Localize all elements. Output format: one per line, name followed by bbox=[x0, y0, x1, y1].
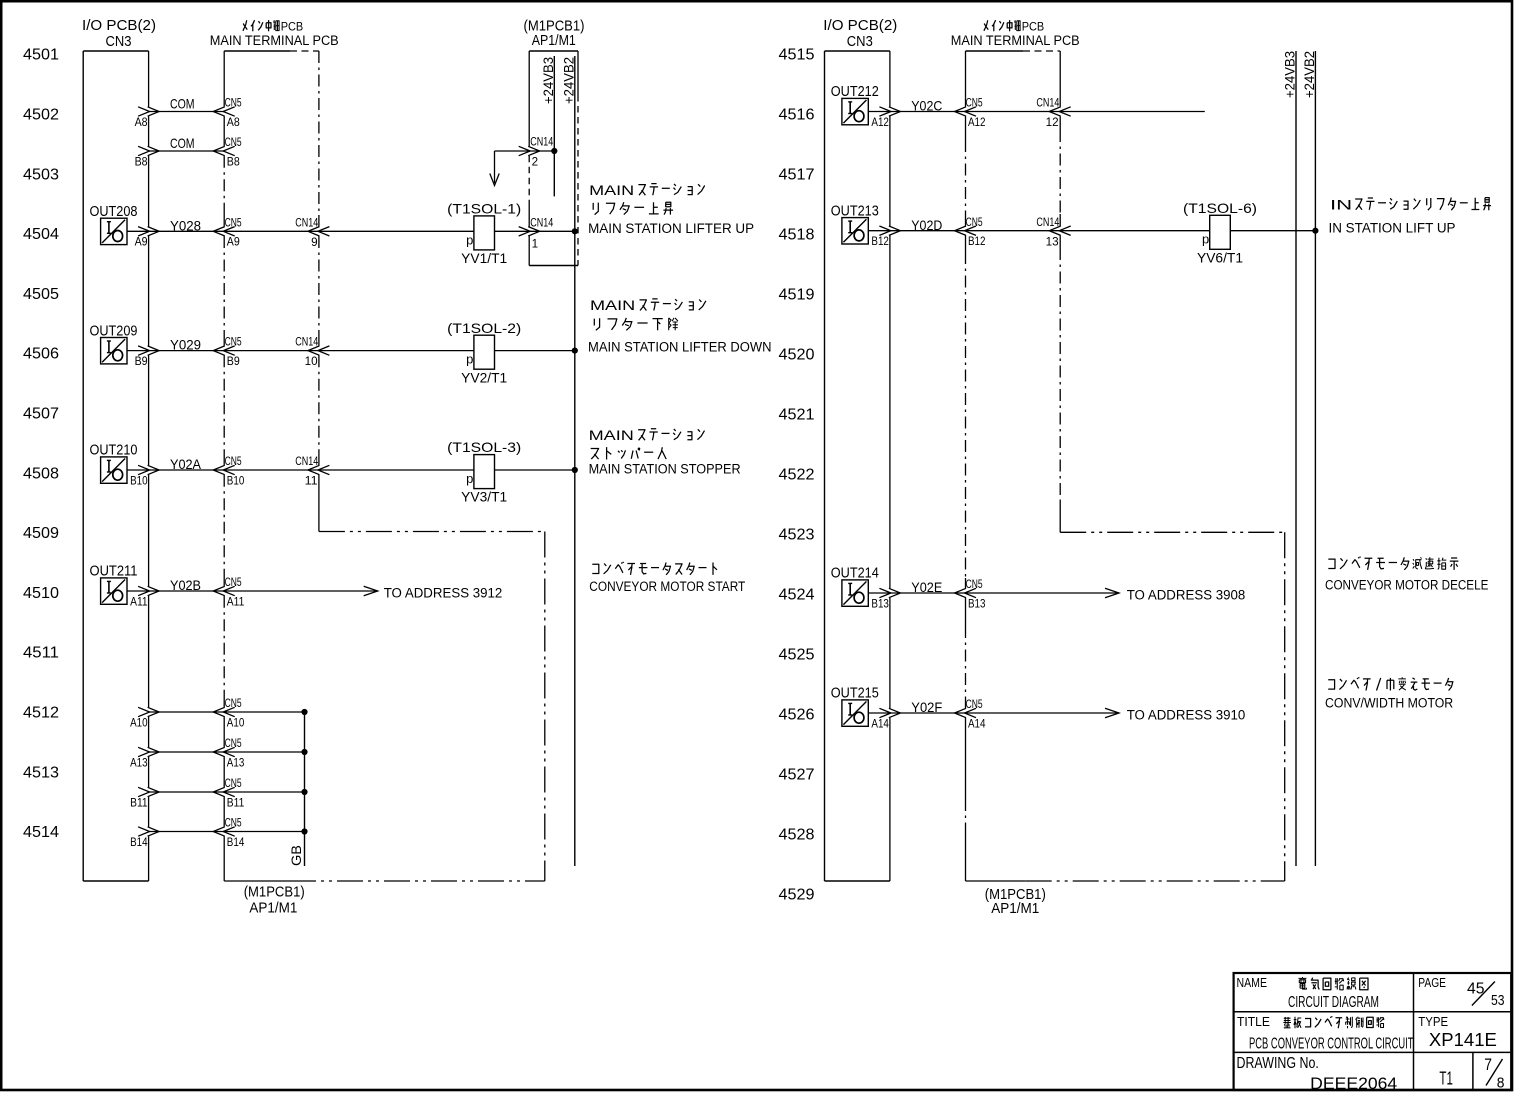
svg-text:4515: 4515 bbox=[779, 47, 815, 64]
svg-text:(M1PCB1): (M1PCB1) bbox=[244, 883, 305, 900]
title block NAME cell bbox=[1237, 975, 1268, 990]
svg-text:4504: 4504 bbox=[23, 226, 59, 243]
pin label A12 (CN5 side) bbox=[968, 117, 986, 129]
svg-text:I/O PCB(2): I/O PCB(2) bbox=[82, 17, 156, 34]
svg-text:9: 9 bbox=[311, 237, 318, 249]
bottom label AP1/M1 (left) bbox=[249, 900, 297, 917]
wire solenoid YV6/T1 to +24VB2 bbox=[1230, 228, 1318, 234]
svg-text:A10: A10 bbox=[227, 717, 245, 729]
line number 4514 bbox=[23, 824, 59, 841]
svg-text:MAIN STATION LIFTER UP: MAIN STATION LIFTER UP bbox=[588, 221, 754, 236]
MAIN TERMINAL PCB top edge (left) bbox=[224, 50, 319, 52]
sheet 7/8 bbox=[1484, 1055, 1504, 1091]
note MAINステーション リフター下降 MAIN STATION LIFTER DOWN bbox=[588, 298, 772, 354]
svg-text:(T1SOL-6): (T1SOL-6) bbox=[1183, 200, 1257, 216]
+24VB3 power rail (left) bbox=[540, 56, 556, 196]
connector label CN5 bbox=[225, 137, 242, 149]
wire solenoid YV3/T1 to +24VB2 bbox=[495, 467, 578, 473]
signal label Y028 bbox=[170, 217, 201, 233]
svg-text:4508: 4508 bbox=[23, 465, 59, 482]
svg-text:YV2/T1: YV2/T1 bbox=[461, 370, 507, 385]
line number 4521 bbox=[779, 407, 815, 424]
svg-text:YV1/T1: YV1/T1 bbox=[461, 251, 507, 266]
line number 4520 bbox=[779, 347, 815, 364]
pin label A11 (CN3 side) bbox=[130, 596, 148, 608]
svg-text:CN5: CN5 bbox=[225, 818, 242, 830]
svg-text:CN14: CN14 bbox=[295, 456, 318, 468]
wire CN5 to CN14 pin 12 (right) bbox=[966, 107, 1071, 116]
I/O output module OUT210 bbox=[90, 443, 149, 484]
svg-text:XP141E: XP141E bbox=[1429, 1030, 1497, 1050]
header I/O PCB(2) (right) bbox=[823, 17, 897, 34]
svg-text:TO ADDRESS 3910: TO ADDRESS 3910 bbox=[1127, 707, 1246, 722]
wire CN14 to solenoid YV6/T1 bbox=[1060, 230, 1209, 232]
+24VB3 power rail (right) bbox=[1281, 51, 1297, 866]
svg-text:TO ADDRESS 3912: TO ADDRESS 3912 bbox=[384, 585, 503, 600]
svg-text:COM: COM bbox=[170, 135, 195, 151]
drawing number DEEE2064 bbox=[1310, 1074, 1397, 1093]
page number 45/53 bbox=[1467, 981, 1505, 1010]
connector label CN5 bbox=[966, 579, 983, 591]
line number 4502 bbox=[23, 107, 59, 124]
signal label Y02D bbox=[911, 217, 942, 233]
connector label CN14 bbox=[295, 456, 318, 468]
svg-text:B12: B12 bbox=[871, 236, 889, 248]
svg-text:COM: COM bbox=[170, 95, 195, 111]
svg-text:NAME: NAME bbox=[1237, 975, 1268, 990]
pin label A10 (CN5 side) bbox=[227, 717, 245, 729]
svg-text:PAGE: PAGE bbox=[1418, 975, 1446, 990]
wire Y02B CN3 to CN5 bbox=[138, 586, 235, 595]
connector label CN14 bbox=[295, 337, 318, 349]
svg-text:B8: B8 bbox=[135, 156, 148, 168]
note INステーションリフター上昇 IN STATION LIFT UP bbox=[1329, 198, 1492, 236]
pin label A14 (CN3 side) bbox=[871, 718, 889, 730]
wire CN5 to CN14 pin 9 bbox=[224, 227, 329, 236]
connector label CN14 pin 1 (M1PCB1) bbox=[530, 217, 553, 250]
pin label A8 (CN3 side) bbox=[135, 117, 148, 129]
svg-text:CN5: CN5 bbox=[966, 579, 983, 591]
svg-text:CN3: CN3 bbox=[847, 33, 873, 50]
svg-text:7: 7 bbox=[1484, 1055, 1492, 1074]
MAIN TERMINAL PCB bottom edge (left) bbox=[224, 880, 545, 882]
I/O output module OUT211 bbox=[90, 564, 149, 605]
M1PCB1 AP1/M1 board box (top left area) bbox=[529, 51, 578, 266]
line number 4501 bbox=[23, 47, 59, 64]
header CN3 (right) bbox=[847, 33, 873, 50]
svg-text:Y02A: Y02A bbox=[170, 456, 202, 472]
pin label B12 (CN5 side) bbox=[968, 236, 986, 248]
wire Y02C stub from CN14 (right, unterminated) bbox=[1060, 111, 1205, 113]
line number 4516 bbox=[779, 107, 815, 124]
sheet T1 bbox=[1439, 1068, 1453, 1088]
connector label CN5 bbox=[225, 577, 242, 589]
title 基板コンベア制御回路 bbox=[1283, 1016, 1384, 1028]
wire COM A8 CN3 to CN5 bbox=[138, 107, 235, 116]
wire CN14 to solenoid YV3/T1 bbox=[319, 469, 474, 471]
signal label Y02A bbox=[170, 456, 202, 472]
svg-text:CN5: CN5 bbox=[225, 577, 242, 589]
svg-text:A12: A12 bbox=[871, 117, 889, 129]
signal label Y02E bbox=[911, 579, 942, 595]
pin label 9 (CN14) bbox=[311, 237, 318, 249]
svg-text:10: 10 bbox=[305, 356, 318, 368]
signal label Y02B bbox=[170, 577, 201, 593]
wire Y02F to address 3910 bbox=[966, 708, 1120, 718]
note コンベアモータ減速指示 CONVEYOR MOTOR DECELE bbox=[1325, 557, 1488, 593]
svg-text:2: 2 bbox=[532, 157, 539, 169]
pin label A10 (CN3 side) bbox=[130, 717, 148, 729]
label TO ADDRESS 3908 bbox=[1127, 587, 1246, 602]
MAIN TERMINAL PCB board outline (left): CN5 edge column bbox=[223, 51, 225, 881]
solenoid (T1SOL-3) YV3/T1 bbox=[447, 439, 521, 505]
svg-text:p: p bbox=[466, 352, 473, 367]
wire Y029 CN3 to CN5 bbox=[138, 346, 235, 355]
svg-text:4506: 4506 bbox=[23, 346, 59, 363]
label COM bbox=[170, 135, 195, 151]
pin label B11 (CN5 side) bbox=[227, 797, 245, 809]
svg-text:4527: 4527 bbox=[779, 767, 815, 784]
svg-text:MAIN STATION LIFTER DOWN: MAIN STATION LIFTER DOWN bbox=[588, 339, 772, 354]
svg-text:B14: B14 bbox=[130, 837, 148, 849]
svg-text:Y028: Y028 bbox=[170, 217, 201, 233]
connector label CN5 bbox=[225, 818, 242, 830]
wire B11 CN3 to CN5 to GB rail bbox=[138, 787, 308, 796]
I/O output module OUT213 bbox=[831, 203, 890, 244]
svg-text:B9: B9 bbox=[227, 356, 240, 368]
svg-text:Y029: Y029 bbox=[170, 337, 201, 353]
pin label B11 (CN3 side) bbox=[130, 797, 148, 809]
svg-text:p: p bbox=[1202, 232, 1209, 247]
svg-text:CN5: CN5 bbox=[966, 98, 983, 110]
svg-text:YV3/T1: YV3/T1 bbox=[461, 490, 507, 505]
svg-text:A11: A11 bbox=[227, 596, 245, 608]
svg-text:MAIN STATION STOPPER: MAIN STATION STOPPER bbox=[589, 461, 741, 476]
svg-text:AP1/M1: AP1/M1 bbox=[532, 32, 576, 49]
svg-text:DRAWING No.: DRAWING No. bbox=[1237, 1055, 1319, 1072]
wire A13 CN3 to CN5 to GB rail bbox=[138, 747, 308, 756]
I/O output module OUT212 bbox=[831, 84, 890, 125]
svg-text:MAIN: MAIN bbox=[589, 183, 634, 198]
M1PCB1 boundary dash-dot (left) bbox=[319, 532, 545, 882]
MAIN TERMINAL PCB bottom edge (right) bbox=[966, 880, 1285, 882]
svg-text:4517: 4517 bbox=[779, 167, 815, 184]
svg-text:A9: A9 bbox=[135, 237, 148, 249]
wire Y02B to address 3912 bbox=[224, 586, 378, 596]
pin label A12 (CN3 side) bbox=[871, 117, 889, 129]
line number 4503 bbox=[23, 166, 59, 183]
svg-text:PCB: PCB bbox=[281, 20, 304, 34]
svg-text:MAIN TERMINAL PCB: MAIN TERMINAL PCB bbox=[210, 33, 339, 48]
svg-text:(T1SOL-3): (T1SOL-3) bbox=[447, 439, 521, 455]
header (M1PCB1) top bbox=[524, 17, 585, 34]
CN14 connector column (right) bbox=[1059, 51, 1061, 532]
+24VB2 power rail (right) bbox=[1301, 51, 1317, 866]
+24VB2 power rail (left) bbox=[560, 56, 576, 866]
line number 4526 bbox=[779, 707, 815, 724]
title 電気回路線図 bbox=[1299, 977, 1369, 990]
title block DRAWING No. cell bbox=[1237, 1055, 1319, 1072]
solenoid (T1SOL-2) YV2/T1 bbox=[447, 320, 521, 386]
svg-text:4526: 4526 bbox=[779, 707, 815, 724]
line number 4527 bbox=[779, 767, 815, 784]
bottom label AP1/M1 (right) bbox=[991, 900, 1039, 917]
svg-text:CN5: CN5 bbox=[225, 456, 242, 468]
pin label B12 (CN3 side) bbox=[871, 236, 889, 248]
svg-text:GB: GB bbox=[288, 845, 304, 866]
svg-text:A13: A13 bbox=[227, 757, 245, 769]
connector label CN5 bbox=[225, 698, 242, 710]
svg-text:4507: 4507 bbox=[23, 406, 59, 423]
header メイン中継PCB (right) bbox=[984, 20, 1044, 34]
wire B14 CN3 to CN5 to GB rail bbox=[138, 827, 308, 836]
line number 4505 bbox=[23, 286, 59, 303]
svg-text:B8: B8 bbox=[227, 156, 240, 168]
header MAIN TERMINAL PCB (left) bbox=[210, 33, 339, 48]
svg-text:T1: T1 bbox=[1439, 1068, 1453, 1088]
M1PCB1 boundary dash-dot (right) bbox=[1060, 532, 1285, 881]
svg-text:(T1SOL-2): (T1SOL-2) bbox=[447, 320, 521, 336]
svg-text:4512: 4512 bbox=[23, 705, 59, 722]
pin label A9 (CN3 side) bbox=[135, 237, 148, 249]
wire CN5 to CN14 pin 11 bbox=[224, 465, 329, 474]
svg-text:AP1/M1: AP1/M1 bbox=[991, 900, 1039, 917]
note MAINステーション リフター上昇 MAIN STATION LIFTER UP bbox=[588, 183, 754, 236]
svg-text:1: 1 bbox=[532, 239, 539, 251]
title block frame bbox=[1234, 973, 1512, 1090]
I/O output module OUT214 bbox=[831, 566, 890, 607]
line number 4512 bbox=[23, 705, 59, 722]
svg-text:CONVEYOR MOTOR START: CONVEYOR MOTOR START bbox=[589, 579, 745, 594]
line number 4508 bbox=[23, 465, 59, 482]
svg-text:+24VB3: +24VB3 bbox=[1281, 51, 1297, 98]
title PCB CONVEYOR CONTROL CIRCUIT bbox=[1249, 1036, 1414, 1053]
wire solenoid YV1/T1 to M1PCB1 CN14 pin 1 and +24VB2 bbox=[495, 227, 578, 236]
svg-text:CN5: CN5 bbox=[966, 699, 983, 711]
GB ground rail bbox=[288, 712, 305, 866]
svg-text:4503: 4503 bbox=[23, 166, 59, 183]
svg-text:CONV/WIDTH MOTOR: CONV/WIDTH MOTOR bbox=[1325, 695, 1453, 710]
svg-text:CN14: CN14 bbox=[530, 217, 553, 229]
svg-text:Y02D: Y02D bbox=[911, 217, 942, 233]
svg-text:PCB: PCB bbox=[1022, 20, 1045, 34]
svg-text:B11: B11 bbox=[227, 797, 245, 809]
line number 4506 bbox=[23, 346, 59, 363]
note コンベア／巾変えモータ CONV/WIDTH MOTOR bbox=[1325, 677, 1453, 710]
svg-text:IN: IN bbox=[1330, 198, 1352, 213]
signal label Y029 bbox=[170, 337, 201, 353]
bottom label (M1PCB1) (left) bbox=[244, 883, 305, 900]
MAIN TERMINAL PCB CN5 edge column (right) bbox=[965, 51, 967, 881]
svg-text:4516: 4516 bbox=[779, 107, 815, 124]
header MAIN TERMINAL PCB (right) bbox=[951, 33, 1080, 48]
pin label 12 (CN14) bbox=[1046, 117, 1059, 129]
svg-text:p: p bbox=[466, 232, 473, 247]
connector label CN5 bbox=[225, 456, 242, 468]
svg-text:+24VB2: +24VB2 bbox=[560, 57, 576, 104]
svg-text:TO ADDRESS 3908: TO ADDRESS 3908 bbox=[1127, 587, 1246, 602]
svg-text:4521: 4521 bbox=[779, 407, 815, 424]
line number 4518 bbox=[779, 227, 815, 244]
svg-text:4529: 4529 bbox=[779, 887, 815, 904]
pin label A9 (CN5 side) bbox=[227, 237, 240, 249]
header AP1/M1 top bbox=[532, 32, 576, 49]
pin label B9 (CN5 side) bbox=[227, 356, 240, 368]
title CIRCUIT DIAGRAM bbox=[1288, 994, 1379, 1011]
pin label B14 (CN3 side) bbox=[130, 837, 148, 849]
svg-text:4510: 4510 bbox=[23, 585, 59, 602]
svg-text:CN14: CN14 bbox=[530, 137, 553, 149]
svg-text:Y02C: Y02C bbox=[911, 98, 942, 114]
pin label B8 (CN3 side) bbox=[135, 156, 148, 168]
svg-text:A11: A11 bbox=[130, 596, 148, 608]
note コンベアモータスタート CONVEYOR MOTOR START bbox=[589, 562, 745, 594]
svg-text:(T1SOL-1): (T1SOL-1) bbox=[447, 201, 521, 217]
wire A10 CN3 to CN5 to GB rail bbox=[138, 707, 308, 716]
label TO ADDRESS 3910 bbox=[1127, 707, 1246, 722]
connector label CN5 bbox=[225, 98, 242, 110]
svg-text:MAIN: MAIN bbox=[589, 428, 634, 443]
svg-text:4522: 4522 bbox=[779, 467, 815, 484]
svg-text:4513: 4513 bbox=[23, 764, 59, 781]
line number 4510 bbox=[23, 585, 59, 602]
svg-text:CIRCUIT DIAGRAM: CIRCUIT DIAGRAM bbox=[1288, 994, 1379, 1011]
svg-text:A14: A14 bbox=[871, 718, 889, 730]
wire Y02F CN3 to CN5 bbox=[879, 708, 976, 717]
wire COM B8 CN3 to CN5 bbox=[138, 146, 235, 155]
I/O PCB(2) CN3 board box (left) bbox=[83, 51, 148, 881]
svg-text:A8: A8 bbox=[227, 117, 240, 129]
pin label 11 (CN14) bbox=[305, 476, 318, 488]
note MAINステーション ストッパー入 MAIN STATION STOPPER bbox=[589, 428, 741, 476]
svg-text:Y02F: Y02F bbox=[911, 699, 942, 715]
svg-text:CN14: CN14 bbox=[1036, 98, 1059, 110]
svg-text:CN3: CN3 bbox=[106, 33, 132, 50]
svg-text:4518: 4518 bbox=[779, 227, 815, 244]
line number 4522 bbox=[779, 467, 815, 484]
svg-text:CN5: CN5 bbox=[225, 137, 242, 149]
connector label CN5 bbox=[225, 738, 242, 750]
line number 4507 bbox=[23, 406, 59, 423]
pin label A14 (CN5 side) bbox=[968, 718, 986, 730]
svg-text:4525: 4525 bbox=[779, 647, 815, 664]
svg-text:4505: 4505 bbox=[23, 286, 59, 303]
svg-text:A8: A8 bbox=[135, 117, 148, 129]
svg-text:4523: 4523 bbox=[779, 527, 815, 544]
wire CN14 to solenoid YV2/T1 bbox=[319, 350, 474, 352]
svg-text:4501: 4501 bbox=[23, 47, 59, 64]
solenoid (T1SOL-1) YV1/T1 bbox=[447, 201, 521, 267]
pin label B8 (CN5 side) bbox=[227, 156, 240, 168]
line number 4511 bbox=[23, 645, 59, 662]
bottom label (M1PCB1) (right) bbox=[985, 886, 1046, 903]
wire CN5 to CN14 pin 10 bbox=[224, 346, 329, 355]
svg-text:B11: B11 bbox=[130, 797, 148, 809]
title block PAGE cell bbox=[1418, 975, 1446, 990]
pin label B10 (CN3 side) bbox=[130, 475, 148, 487]
header メイン中継PCB (left) bbox=[243, 20, 303, 34]
svg-text:CN14: CN14 bbox=[295, 337, 318, 349]
connector label CN14 bbox=[295, 217, 318, 229]
connector label CN5 bbox=[966, 699, 983, 711]
title block TITLE cell bbox=[1237, 1014, 1270, 1029]
svg-text:AP1/M1: AP1/M1 bbox=[249, 900, 297, 917]
svg-text:4519: 4519 bbox=[779, 287, 815, 304]
connector label CN14 pin 2 (M1PCB1) bbox=[530, 137, 553, 169]
svg-text:4509: 4509 bbox=[23, 525, 59, 542]
line number 4523 bbox=[779, 527, 815, 544]
svg-text:CN5: CN5 bbox=[225, 217, 242, 229]
svg-text:4524: 4524 bbox=[779, 587, 815, 604]
connector label CN5 bbox=[225, 337, 242, 349]
svg-text:4520: 4520 bbox=[779, 347, 815, 364]
svg-text:CN14: CN14 bbox=[1036, 217, 1059, 229]
svg-text:B13: B13 bbox=[968, 598, 986, 610]
svg-text:4511: 4511 bbox=[23, 645, 59, 662]
header I/O PCB(2) (left) bbox=[82, 17, 156, 34]
connector label CN14 bbox=[1036, 217, 1059, 229]
svg-text:B13: B13 bbox=[871, 598, 889, 610]
solenoid (T1SOL-6) YV6/T1 bbox=[1183, 200, 1257, 266]
wire CN14 pin 2 jumper to +24VB3 with off-page down arrow bbox=[490, 146, 558, 185]
I/O output module OUT209 bbox=[90, 323, 149, 364]
svg-text:IN STATION LIFT UP: IN STATION LIFT UP bbox=[1329, 220, 1456, 235]
wire CN14 to solenoid YV1/T1 bbox=[319, 230, 474, 232]
svg-text:A9: A9 bbox=[227, 237, 240, 249]
svg-text:4514: 4514 bbox=[23, 824, 59, 841]
connector label CN14 bbox=[1036, 98, 1059, 110]
CN14 connector column (left) bbox=[318, 51, 320, 532]
svg-text:I/O PCB(2): I/O PCB(2) bbox=[823, 17, 897, 34]
svg-text:B14: B14 bbox=[227, 837, 245, 849]
wire Y02D CN3 to CN5 bbox=[879, 226, 976, 235]
wire Y02A CN3 to CN5 bbox=[138, 465, 235, 474]
svg-text:13: 13 bbox=[1046, 236, 1059, 248]
pin label A13 (CN5 side) bbox=[227, 757, 245, 769]
svg-text:CN5: CN5 bbox=[225, 738, 242, 750]
wire CN5 to CN14 pin 13 (right) bbox=[966, 226, 1071, 235]
svg-text:TITLE: TITLE bbox=[1237, 1014, 1270, 1029]
label TO ADDRESS 3912 bbox=[384, 585, 503, 600]
wire Y028 CN3 to CN5 bbox=[138, 227, 235, 236]
pin label 13 (CN14) bbox=[1046, 236, 1059, 248]
signal label Y02C bbox=[911, 98, 942, 114]
I/O output module OUT215 bbox=[831, 686, 890, 727]
svg-text:53: 53 bbox=[1491, 992, 1505, 1009]
type XP141E bbox=[1429, 1030, 1497, 1050]
svg-text:CONVEYOR MOTOR DECELE: CONVEYOR MOTOR DECELE bbox=[1325, 577, 1488, 592]
wire solenoid YV2/T1 to +24VB2 bbox=[495, 348, 578, 354]
wire Y02E to address 3908 bbox=[966, 588, 1120, 598]
header CN3 (left) bbox=[106, 33, 132, 50]
svg-text:4502: 4502 bbox=[23, 107, 59, 124]
svg-text:Y02E: Y02E bbox=[911, 579, 942, 595]
svg-text:CN5: CN5 bbox=[225, 778, 242, 790]
svg-text:B10: B10 bbox=[227, 475, 245, 487]
title block TYPE cell bbox=[1418, 1014, 1448, 1029]
line number 4504 bbox=[23, 226, 59, 243]
svg-text:12: 12 bbox=[1046, 117, 1059, 129]
svg-text:DEEE2064: DEEE2064 bbox=[1310, 1074, 1397, 1093]
line number 4515 bbox=[779, 47, 815, 64]
pin label A13 (CN3 side) bbox=[130, 757, 148, 769]
svg-text:YV6/T1: YV6/T1 bbox=[1197, 250, 1243, 265]
line number 4525 bbox=[779, 647, 815, 664]
svg-text:MAIN: MAIN bbox=[590, 298, 635, 313]
svg-text:PCB CONVEYOR CONTROL CIRCUIT: PCB CONVEYOR CONTROL CIRCUIT bbox=[1249, 1036, 1414, 1053]
pin label A8 (CN5 side) bbox=[227, 117, 240, 129]
svg-text:A10: A10 bbox=[130, 717, 148, 729]
